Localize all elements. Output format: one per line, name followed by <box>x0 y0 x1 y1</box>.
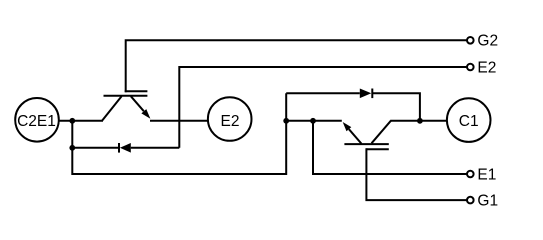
junction dot node C2E1 diode <box>69 145 75 151</box>
transistor Q1 gate bar <box>366 148 388 150</box>
transistor Q2 collector diagonal <box>102 96 122 121</box>
wire C2E1 to Q2 collector <box>59 120 104 122</box>
transistor Q2 emitter arrowhead <box>141 109 150 119</box>
terminal C2E1 <box>15 98 59 142</box>
wire E2 rail <box>179 67 466 148</box>
svg-text:E1: E1 <box>477 166 496 183</box>
wire E1 branch <box>313 121 467 174</box>
wire node C2E1 vertical <box>71 121 73 148</box>
diode D1 triangle <box>360 89 372 99</box>
transistor Q2 body bar <box>104 95 148 97</box>
transistor Q1 body bar <box>344 143 388 145</box>
junction dot node C2E1 top <box>69 118 75 124</box>
wire Q1 gate lead to G1 <box>366 148 466 200</box>
wire Q1 collector to C1 circle <box>390 120 447 122</box>
svg-text:C2E1: C2E1 <box>17 113 56 130</box>
wire mid rail left <box>286 120 342 122</box>
junction dot mid node B <box>310 118 316 124</box>
junction dot mid node A <box>283 118 289 124</box>
diode D2 cathode bar <box>118 143 120 153</box>
svg-text:E2: E2 <box>221 113 240 130</box>
diode D1 anode wire <box>286 92 360 94</box>
wire dot2 to diode D2 <box>72 147 118 149</box>
svg-text:E2: E2 <box>477 59 496 76</box>
terminal pin G1 <box>467 197 474 204</box>
transistor Q2 gate bar <box>125 90 148 92</box>
terminal pin G2 <box>467 37 474 44</box>
wire Q2 emitter to E2 circle <box>150 120 208 122</box>
terminal pin E2 <box>467 64 474 71</box>
junction dot C1 node <box>417 118 423 124</box>
svg-text:G2: G2 <box>477 33 498 50</box>
terminal C1 <box>447 98 491 142</box>
transistor Q1 emitter diagonal <box>349 129 362 143</box>
wire diode D1 to C1 rail <box>372 93 420 121</box>
wire diode D2 to E2 node <box>131 147 180 149</box>
terminal pin E1 <box>467 171 474 178</box>
terminal E2 <box>208 97 252 141</box>
transistor Q1 emitter arrowhead <box>343 122 352 131</box>
wire bottom rail C2E1 to mid node <box>72 93 286 174</box>
diode D1 cathode bar <box>371 89 373 99</box>
svg-text:G1: G1 <box>477 192 498 209</box>
transistor Q1 collector diagonal <box>372 121 391 144</box>
wire gate lead Q2 to G2 <box>126 40 467 92</box>
svg-text:C1: C1 <box>459 113 479 130</box>
diode D2 triangle <box>120 143 131 153</box>
transistor Q2 emitter diagonal <box>131 96 144 111</box>
